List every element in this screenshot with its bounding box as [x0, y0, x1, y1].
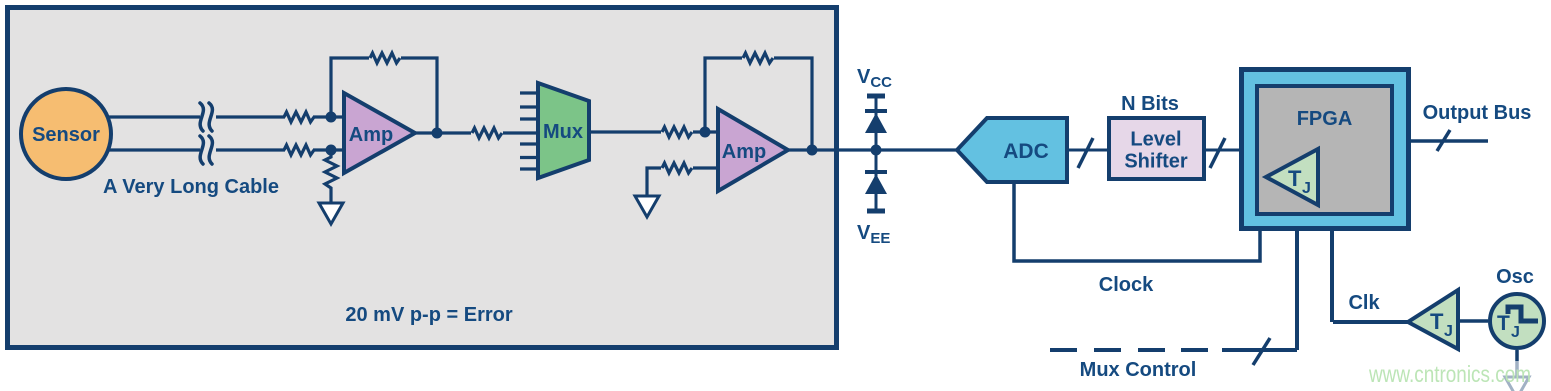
svg-text:20 mV p-p = Error: 20 mV p-p = Error: [345, 304, 512, 326]
svg-text:Mux: Mux: [543, 121, 583, 143]
svg-text:www.cntronics.com: www.cntronics.com: [1368, 361, 1531, 387]
svg-text:Mux Control: Mux Control: [1080, 359, 1197, 381]
svg-text:J: J: [1511, 324, 1520, 341]
svg-text:ADC: ADC: [1003, 140, 1049, 163]
svg-text:Shifter: Shifter: [1124, 151, 1188, 173]
svg-text:Amp: Amp: [722, 141, 766, 163]
svg-text:FPGA: FPGA: [1297, 108, 1353, 130]
svg-text:N Bits: N Bits: [1121, 93, 1179, 115]
svg-text:Sensor: Sensor: [32, 124, 100, 146]
svg-text:Output Bus: Output Bus: [1423, 102, 1532, 124]
svg-text:Level: Level: [1130, 129, 1181, 151]
svg-text:J: J: [1444, 323, 1453, 340]
svg-text:J: J: [1302, 180, 1311, 197]
svg-text:T: T: [1430, 309, 1444, 334]
svg-text:A Very Long Cable: A Very Long Cable: [103, 176, 279, 198]
svg-text:Osc: Osc: [1496, 266, 1534, 288]
svg-text:Amp: Amp: [349, 124, 393, 146]
svg-text:T: T: [1497, 312, 1510, 335]
svg-text:Clock: Clock: [1099, 274, 1154, 296]
svg-text:Clk: Clk: [1348, 292, 1380, 314]
svg-text:T: T: [1288, 166, 1302, 191]
